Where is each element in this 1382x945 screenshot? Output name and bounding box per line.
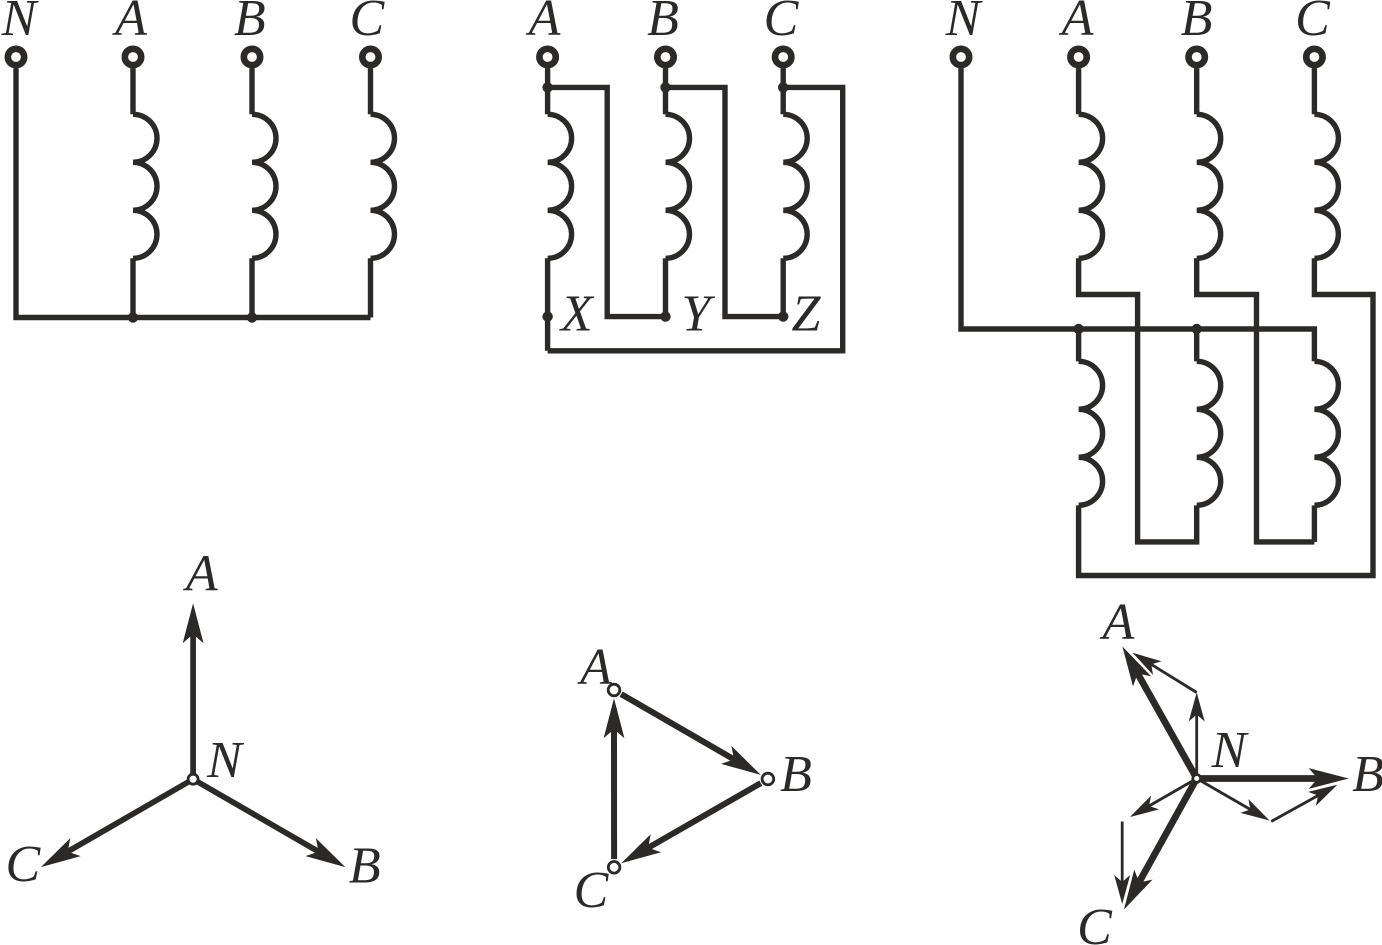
winding C (wye phase coil): [371, 114, 395, 258]
phasor arrow C (zigzag resultant): [1124, 779, 1197, 910]
wire C2 bottom lead: [1312, 505, 1317, 542]
phasor component arrow A2 (zigzag): [1133, 653, 1197, 693]
wire A bottom lead (delta): [545, 258, 550, 351]
wire B bottom lead (delta): [663, 258, 668, 316]
node A (delta phasor vertex): [608, 684, 620, 696]
phasor arrow B (wye): [193, 779, 345, 867]
node C (delta phasor vertex): [608, 862, 620, 874]
svg-text:N: N: [945, 0, 984, 47]
junction dot A-neutral: [128, 312, 138, 322]
svg-text:C: C: [764, 0, 800, 47]
svg-text:C: C: [1295, 0, 1331, 47]
junction dot C top (delta): [778, 82, 788, 92]
phasor arrow C (wye): [41, 779, 193, 867]
phasor component arrow B1 (zigzag): [1197, 779, 1270, 821]
phasor arrow B-C (delta): [621, 783, 761, 863]
winding A (wye phase coil): [133, 114, 157, 258]
winding A1 (zigzag upper coil): [1079, 114, 1103, 258]
wire N lead and neutral bus: [16, 68, 371, 317]
wire C top lead (delta): [781, 68, 786, 114]
svg-text:N: N: [1211, 722, 1250, 779]
terminal B (delta): [657, 49, 673, 65]
wire B top lead (zigzag): [1194, 68, 1199, 114]
wire N lead and zigzag neutral bus: [961, 68, 1314, 361]
svg-text:Z: Z: [792, 286, 822, 343]
wire zigzag link A1 to B2: [1079, 258, 1197, 542]
phasor arrow A (wye): [183, 603, 204, 779]
junction dot B top (delta): [660, 82, 670, 92]
winding B2 (zigzag lower coil B): [1194, 329, 1199, 361]
phasor component arrow C1 (zigzag): [1130, 779, 1197, 818]
winding A (delta phase coil): [548, 114, 572, 258]
winding B (wye phase coil): [252, 114, 276, 258]
wire zigzag link C1 to A2 (bottom rail): [1079, 258, 1373, 575]
svg-text:X: X: [559, 286, 595, 343]
svg-text:B: B: [1352, 746, 1382, 803]
svg-text:A: A: [526, 0, 561, 47]
svg-text:B: B: [1181, 0, 1213, 47]
wire B top lead: [249, 68, 254, 114]
terminal N (zigzag): [953, 49, 969, 65]
svg-text:C: C: [5, 836, 41, 893]
terminal A (wye): [125, 49, 141, 65]
svg-text:C: C: [1077, 899, 1113, 945]
junction dot B2-bus: [1192, 324, 1202, 334]
terminal A (delta): [539, 49, 555, 65]
terminal C (wye): [362, 49, 378, 65]
svg-text:N: N: [206, 732, 245, 789]
node X: [542, 311, 552, 321]
svg-text:B: B: [349, 837, 381, 894]
svg-text:B: B: [234, 0, 266, 47]
svg-text:A: A: [577, 639, 612, 696]
wire delta link A-top to Y: [548, 87, 666, 316]
svg-text:A: A: [112, 0, 147, 47]
node Z: [778, 311, 788, 321]
svg-text:C: C: [574, 862, 610, 919]
wire A top lead: [130, 68, 135, 114]
phasor arrow A-B (delta): [621, 694, 761, 775]
node N (wye phasor center): [188, 774, 198, 784]
node N (zigzag phasor center): [1193, 775, 1201, 783]
phasor arrow A (zigzag resultant): [1122, 647, 1196, 779]
wire zigzag link B1 to C2: [1197, 258, 1315, 542]
wire C top lead (zigzag): [1312, 68, 1317, 114]
phasor arrow B (zigzag resultant): [1197, 768, 1349, 789]
terminal N (wye): [8, 49, 24, 65]
phasor component arrow A1 (zigzag): [1189, 693, 1205, 779]
svg-text:A: A: [1059, 0, 1094, 47]
wire A bottom lead: [130, 258, 135, 317]
wire C bottom lead: [368, 258, 373, 317]
terminal B (zigzag): [1189, 49, 1205, 65]
svg-text:A: A: [183, 546, 218, 603]
terminal C (zigzag): [1306, 49, 1322, 65]
node Y: [660, 311, 670, 321]
phasor component arrow B2 (zigzag): [1271, 785, 1337, 822]
svg-text:A: A: [1100, 594, 1135, 651]
node B (delta phasor vertex): [762, 773, 774, 785]
svg-text:B: B: [647, 0, 679, 47]
junction dot B-neutral: [247, 312, 257, 322]
svg-text:B: B: [780, 746, 812, 803]
svg-text:C: C: [349, 0, 385, 47]
svg-text:Y: Y: [681, 286, 715, 343]
wire C top lead: [368, 68, 373, 114]
wire B bottom lead: [249, 258, 254, 317]
wire delta link C-top to X: [548, 87, 843, 350]
winding B1 (zigzag upper coil): [1197, 114, 1221, 258]
phasor arrow C-A (delta): [604, 698, 625, 859]
winding A2 (zigzag lower coil A): [1076, 329, 1081, 361]
wire A top lead (delta): [545, 68, 550, 114]
winding B (delta phase coil): [666, 114, 690, 258]
svg-text:N: N: [1, 0, 40, 47]
terminal A (zigzag): [1070, 49, 1086, 65]
winding C2 (zigzag lower coil C): [1314, 361, 1338, 505]
junction dot A2-bus: [1073, 324, 1083, 334]
phasor component arrow C2 (zigzag): [1114, 822, 1130, 905]
wire delta link B-top to Z: [666, 87, 784, 316]
terminal B (wye): [244, 49, 260, 65]
junction dot A top (delta): [542, 82, 552, 92]
winding C1 (zigzag upper coil): [1314, 114, 1338, 258]
wire A top lead (zigzag): [1076, 68, 1081, 114]
wire B top lead (delta): [663, 68, 668, 114]
wire C bottom lead (delta): [781, 258, 786, 316]
terminal C (delta): [775, 49, 791, 65]
winding C (delta phase coil): [783, 114, 807, 258]
